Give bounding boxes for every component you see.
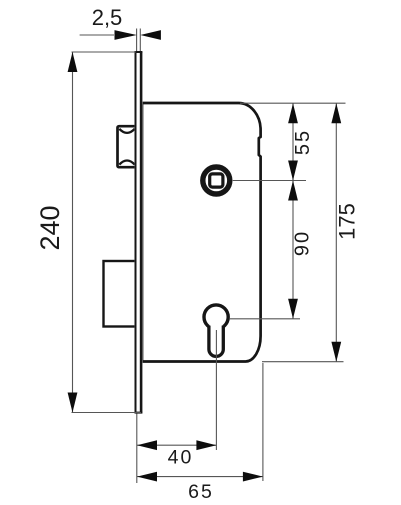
dimension 240 arrows	[68, 52, 78, 72]
latch bolt	[118, 126, 137, 167]
extension line keyhole axis (right)	[229, 318, 300, 320]
extension line keyhole axis down	[215, 330, 217, 450]
extension line plate right edge (top, 2.5 dim)	[139, 29, 141, 52]
svg-text:65: 65	[188, 481, 214, 503]
extension line body top (right)	[240, 102, 346, 104]
dimension 40 line	[137, 444, 216, 446]
dimension 2,5 leader line	[80, 34, 114, 36]
dimension 2,5 arrows	[115, 30, 137, 40]
dimension 65 arrows	[137, 472, 157, 482]
spindle hub	[203, 167, 230, 194]
extension line body bottom (right)	[262, 361, 344, 363]
deadbolt	[104, 261, 137, 327]
extension line body right edge down	[262, 363, 264, 481]
extension line spindle axis	[233, 180, 306, 182]
svg-text:40: 40	[168, 447, 194, 469]
svg-text:2,5: 2,5	[92, 5, 123, 30]
svg-text:55: 55	[292, 129, 314, 155]
dimension 90 arrows	[288, 181, 298, 201]
dimension 65 line	[137, 476, 263, 478]
faceplate	[134, 51, 142, 414]
extension line plate bottom (for 40/65 dims)	[136, 414, 138, 484]
dimension 240 line	[72, 52, 74, 413]
lock body	[142, 103, 261, 362]
dimension 175 arrows	[331, 103, 341, 123]
keyhole	[204, 305, 228, 357]
extension line bottom of plate (left)	[72, 412, 142, 414]
svg-text:175: 175	[335, 203, 360, 240]
svg-text:240: 240	[35, 205, 65, 250]
dimension 175 line	[335, 103, 337, 362]
dimension 40 arrows	[137, 440, 157, 450]
dimension 55/90 line	[292, 103, 294, 319]
extension line top of plate (left)	[72, 51, 137, 53]
svg-text:90: 90	[291, 230, 313, 256]
dimension 55 arrows	[288, 103, 298, 123]
extension line plate left edge (top, 2.5 dim)	[136, 29, 138, 52]
